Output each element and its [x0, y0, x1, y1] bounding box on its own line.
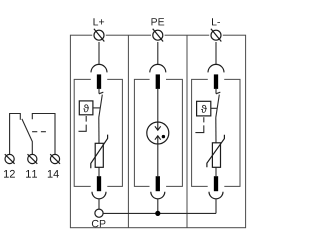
- spark gap down arrow: [155, 122, 161, 130]
- thermal element box U+03D1 module 1: [79, 101, 93, 115]
- plug socket arc module 2: [150, 64, 166, 72]
- plug blade module 1: [97, 74, 101, 89]
- label 14: [48, 170, 59, 178]
- thermal disconnect switch module 3: [216, 89, 221, 143]
- terminal L-: [209, 28, 223, 42]
- label 12: [4, 170, 15, 178]
- plug blade module 3: [214, 74, 218, 89]
- thermal element box U+03D1 module 3: [197, 101, 211, 116]
- enclosure outer box: [70, 35, 245, 228]
- terminal 11: [28, 154, 38, 164]
- radioactive trigger dot: [162, 135, 165, 138]
- bay separator wall 1: [127, 35, 129, 228]
- bottom socket arc module 2: [151, 192, 165, 199]
- module 3 inner box: [192, 79, 240, 186]
- label L-: [212, 18, 220, 25]
- terminal L+: [92, 28, 106, 42]
- wire to CP terminal: [98, 199, 100, 209]
- bottom plug blade module 1: [97, 176, 101, 191]
- dashed linkage from thermal box module 3: [195, 117, 203, 132]
- wire module 2 to PE bus: [157, 199, 159, 214]
- wire PE lead: [157, 40, 159, 64]
- remote contact lead 14: [32, 114, 55, 155]
- module 2 inner box: [134, 79, 182, 186]
- bottom plug blade module 3: [214, 176, 218, 191]
- dashed actuator line remote contact: [32, 131, 46, 133]
- junction node PE bus: [155, 211, 160, 216]
- gas discharge tube circle module 2: [147, 122, 169, 144]
- varistor module 3: [207, 135, 225, 168]
- thermal disconnect switch module 1: [99, 89, 104, 143]
- label PE: [152, 18, 165, 25]
- PE bus wire: [103, 212, 216, 214]
- spark gap up arrow: [155, 136, 161, 144]
- wire thermal box to switch module 3: [211, 107, 217, 109]
- module 1 inner box: [74, 79, 122, 186]
- terminal PE: [151, 28, 165, 42]
- bottom plug blade module 2: [156, 176, 160, 191]
- varistor module 1: [91, 135, 108, 169]
- gas discharge tube lead module 2: [157, 89, 159, 122]
- wire varistor to blade module 3: [215, 167, 217, 176]
- wire module 3 to PE bus: [215, 199, 217, 214]
- plug socket arc module 3: [208, 64, 224, 72]
- dashed linkage from thermal box module 1: [79, 116, 87, 131]
- wire gas discharge tube to bottom blade module 2: [157, 144, 159, 176]
- label 11: [26, 170, 37, 178]
- remote contact common lead 11 with blade: [22, 119, 32, 155]
- bottom socket arc module 3: [209, 192, 223, 199]
- terminal 14: [50, 154, 60, 164]
- wire thermal box to switch module 1: [93, 107, 100, 109]
- wire L- lead: [215, 40, 217, 64]
- label CP: [92, 220, 106, 227]
- wire varistor to blade module 1: [98, 167, 100, 176]
- wire L+ lead: [98, 40, 100, 64]
- bottom socket arc module 1: [92, 192, 106, 199]
- label L+: [94, 18, 105, 25]
- bay separator wall 2: [186, 35, 188, 228]
- plug blade module 2: [156, 74, 160, 89]
- remote contact lead 12: [10, 114, 21, 155]
- plug socket arc module 1: [91, 64, 107, 72]
- terminal CP circle: [95, 209, 103, 217]
- terminal 12: [5, 154, 15, 164]
